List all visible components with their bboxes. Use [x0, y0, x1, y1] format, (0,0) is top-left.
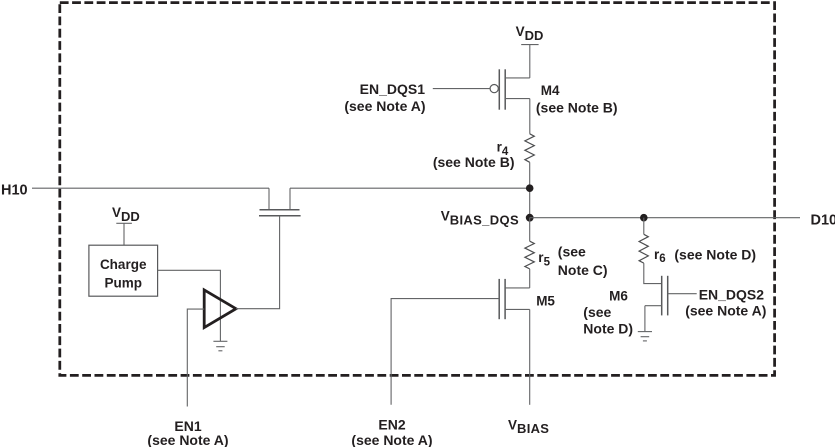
transistor M6 (NMOS, mirrored): [645, 276, 668, 316]
svg-text:Note C): Note C): [558, 262, 608, 278]
ground (buffer): [213, 341, 227, 351]
resistor r5: [525, 241, 534, 269]
dashed boundary box: [60, 3, 775, 376]
junction dot at H10 / r4: [526, 184, 534, 192]
junction dot at r6: [640, 214, 648, 222]
svg-text:EN_DQS1: EN_DQS1: [360, 81, 426, 97]
svg-text:EN2: EN2: [378, 416, 405, 432]
svg-text:VBIAS: VBIAS: [508, 418, 549, 436]
wire M4 drain to r4: [529, 99, 531, 134]
wire VDD to M4 source: [529, 45, 531, 78]
svg-text:(see Note A): (see Note A): [147, 432, 228, 447]
svg-text:(see Note B): (see Note B): [433, 154, 515, 170]
svg-text:M5: M5: [536, 294, 555, 309]
resistor r6: [639, 218, 648, 263]
svg-text:(see: (see: [558, 244, 586, 260]
node VBIAS_DQS junction dot: [526, 214, 534, 222]
wire buffer output to pass transistor gate: [236, 216, 280, 309]
svg-text:Charge: Charge: [100, 257, 147, 272]
wire EN_DQS1 to M4 gate bubble: [433, 88, 490, 90]
svg-text:VDD: VDD: [112, 205, 140, 224]
svg-text:M6: M6: [609, 288, 628, 303]
wire EN2 to M5 gate: [391, 299, 499, 405]
svg-text:VBIAS_DQS: VBIAS_DQS: [441, 209, 519, 228]
svg-text:M4: M4: [541, 83, 560, 98]
pass transistor (series NMOS in H10 line): [259, 188, 301, 216]
ground (M6): [638, 332, 652, 341]
buffer amplifier (EN1 level shifter): [204, 290, 236, 328]
VDD supply bar: [521, 44, 538, 46]
svg-text:EN_DQS2: EN_DQS2: [699, 287, 765, 303]
wire H10 input: [32, 187, 269, 189]
wire r4 to VBIAS_DQS node: [529, 162, 531, 217]
svg-text:(see Note B): (see Note B): [536, 100, 618, 116]
svg-text:Note D): Note D): [583, 321, 633, 337]
svg-text:(see Note A): (see Note A): [351, 432, 432, 447]
wire M5 source to VBIAS pin: [529, 309, 531, 404]
charge pump VDD bar: [116, 222, 132, 224]
wire VDD to charge pump: [123, 223, 125, 245]
svg-text:r6: r6: [654, 247, 666, 265]
wire VBIAS_DQS node to D10: [530, 217, 800, 219]
svg-text:r5: r5: [538, 250, 550, 268]
wire node to r5: [529, 218, 531, 242]
svg-text:Pump: Pump: [104, 276, 142, 291]
wire M6 gate to EN_DQS2: [668, 293, 697, 295]
transistor M4 (PMOS): [490, 69, 530, 109]
wire EN1 to buffer input: [187, 309, 204, 406]
svg-text:(see Note A): (see Note A): [344, 98, 425, 114]
svg-text:(see Note D): (see Note D): [674, 247, 756, 263]
resistor r4: [525, 134, 534, 163]
svg-text:D10: D10: [811, 212, 835, 228]
wire pass transistor to r4 node: [290, 187, 530, 189]
wire r5 to M5 drain: [529, 269, 531, 288]
svg-text:(see Note A): (see Note A): [685, 302, 766, 318]
svg-text:(see: (see: [583, 304, 611, 320]
charge pump box: [89, 245, 158, 296]
wire charge pump output to buffer supply and ground: [158, 270, 221, 341]
transistor M5 (NMOS): [499, 279, 530, 319]
svg-text:VDD: VDD: [516, 24, 544, 43]
wire M6 source to ground: [644, 306, 646, 332]
svg-text:H10: H10: [1, 183, 28, 199]
wire r6 to M6 drain: [644, 263, 662, 284]
